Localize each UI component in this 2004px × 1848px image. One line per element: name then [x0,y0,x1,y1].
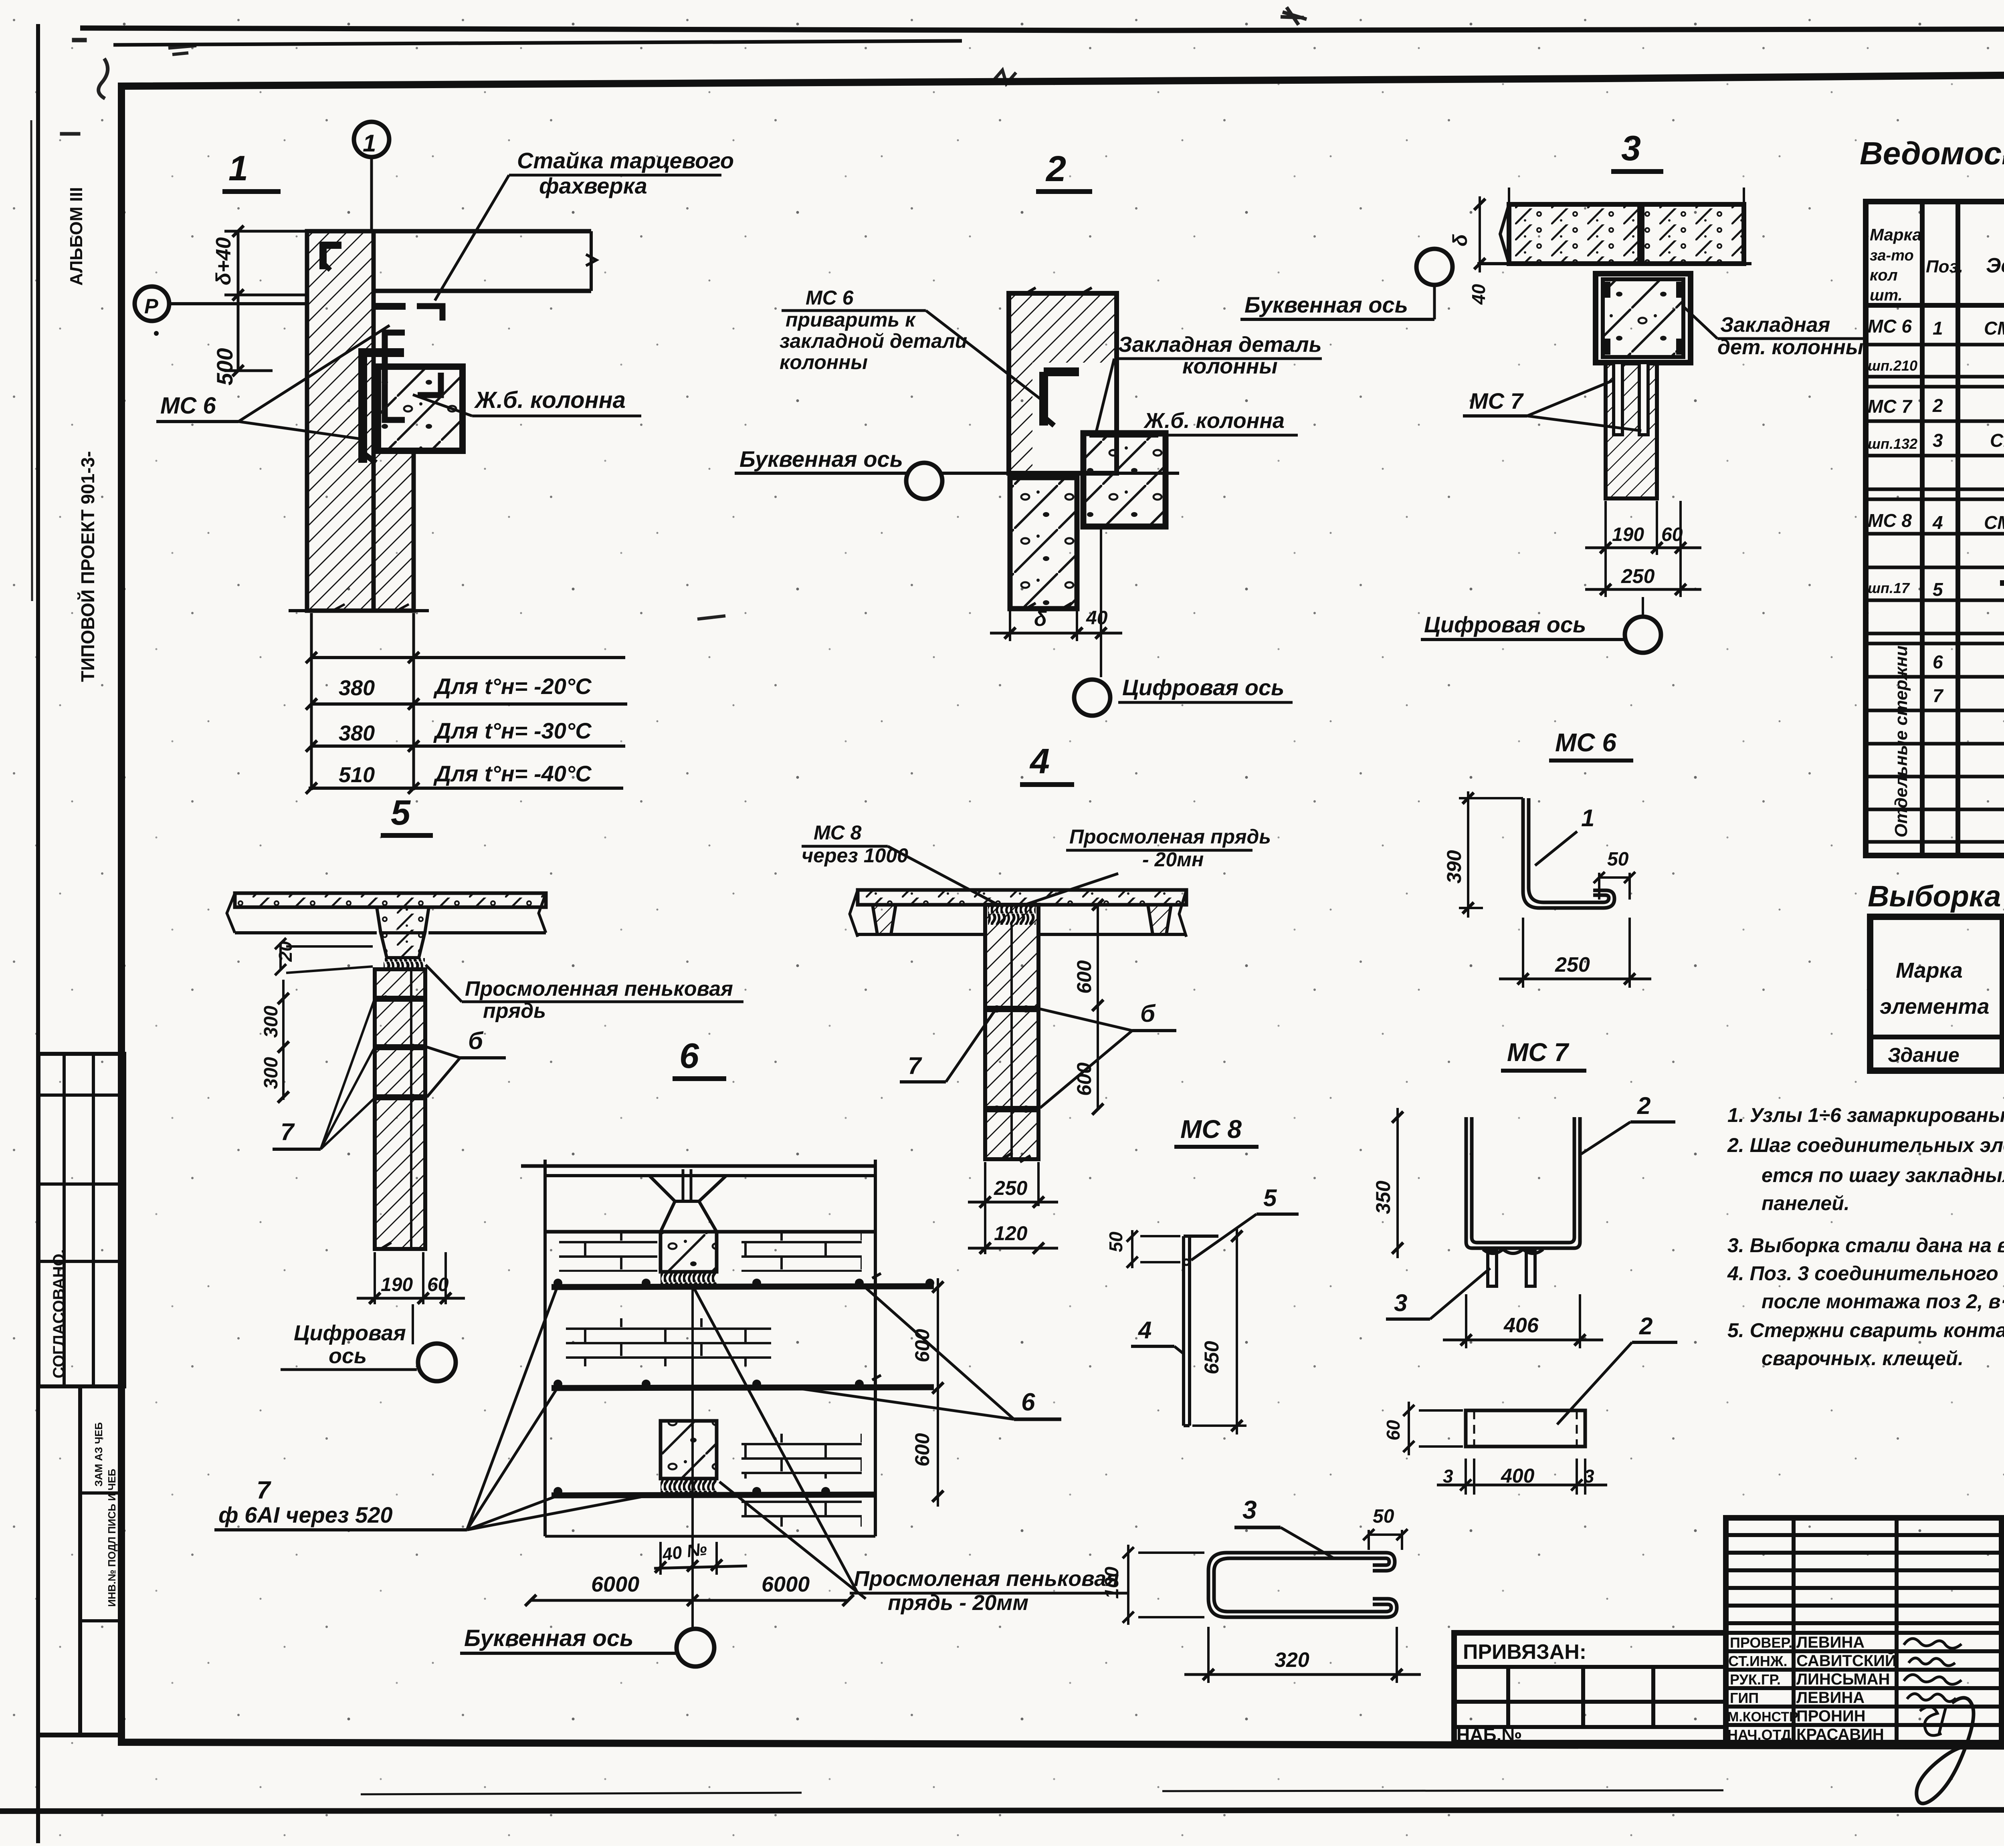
outer verticals [543,1160,547,1536]
svg-text:50: 50 [1373,1506,1394,1527]
svg-text:5: 5 [1933,579,1943,600]
upper column [661,1232,717,1272]
MC6 lower bracket [363,353,404,463]
svg-text:МС 8: МС 8 [1868,510,1912,531]
svg-text:колонны: колонны [780,351,868,373]
6000 dims [531,1599,848,1602]
dims left [282,980,285,1100]
svg-text:панелей.: панелей. [1762,1192,1850,1215]
svg-text:510: 510 [339,763,375,787]
svg-text:1: 1 [1933,318,1943,339]
dims below [1604,501,1607,597]
svg-text:ПРОНИН: ПРОНИН [1796,1707,1866,1725]
svg-text:7: 7 [1933,685,1944,706]
fachwerk channel symbols [373,303,406,310]
svg-text:Просмоленая прядь: Просмоленая прядь [1069,825,1271,848]
svg-text:НАБ.№: НАБ.№ [1457,1724,1522,1745]
svg-text:3: 3 [1933,430,1943,451]
P circle [135,286,169,321]
svg-text:2: 2 [1637,1092,1650,1119]
svg-text:7: 7 [908,1052,922,1079]
svg-text:МС 8: МС 8 [1180,1115,1242,1144]
svg-text:1. Узлы 1÷6 замаркированы на л: 1. Узлы 1÷6 замаркированы на листах АР-2… [1727,1104,2004,1126]
svg-text:500: 500 [212,348,237,385]
svg-text:7: 7 [257,1477,271,1504]
right dim 600/600 [1097,905,1099,1109]
upper wall column hatched [1009,293,1117,473]
svg-text:САВИТСКИЙ: САВИТСКИЙ [1796,1651,1897,1670]
svg-text:50: 50 [1607,849,1629,870]
slab band [1509,204,1744,264]
svg-text:Буквенная ось: Буквенная ось [464,1625,634,1651]
svg-text:4. Поз. 3 соединительного эле: 4. Поз. 3 соединительного элемента МС7 п… [1727,1262,2004,1285]
svg-text:600: 600 [1073,1062,1095,1096]
svg-text:650: 650 [1200,1341,1223,1374]
rebar line 1 [552,1286,934,1287]
column with embed [1596,274,1691,363]
svg-text:600: 600 [1073,960,1095,994]
svg-text:МС 7: МС 7 [1868,396,1913,417]
svg-text:390: 390 [1443,850,1465,884]
svg-text:кол: кол [1870,266,1898,284]
svg-text:МС 7: МС 7 [1469,388,1524,414]
svg-text:6000: 6000 [762,1572,810,1596]
svg-text:120: 120 [994,1222,1028,1245]
svg-text:4: 4 [1932,512,1943,533]
svg-text:Здание: Здание [1888,1044,1960,1066]
svg-text:после монтажа поз 2, в·зависим: после монтажа поз 2, в·зависимости от пр… [1762,1290,2004,1313]
svg-text:5: 5 [391,793,411,832]
svg-text:190: 190 [1612,524,1644,545]
MC6 upper bracket [323,245,341,269]
svg-text:Поз.: Поз. [1926,257,1963,276]
svg-text:ф 6АІ через 520: ф 6АІ через 520 [218,1502,393,1527]
svg-text:Буквенная ось: Буквенная ось [739,446,903,472]
svg-text:МС 6: МС 6 [1555,728,1616,757]
svg-text:ПРИВЯЗАН:: ПРИВЯЗАН: [1463,1640,1586,1664]
svg-text:МС 6: МС 6 [1868,316,1912,337]
wall [375,969,425,1249]
svg-text:Закладная деталь: Закладная деталь [1118,333,1322,357]
svg-text:Марка: Марка [1870,225,1922,244]
svg-text:7: 7 [281,1118,295,1145]
svg-text:60: 60 [1383,1420,1404,1440]
upper brick band [559,1233,657,1272]
svg-text:40: 40 [1086,607,1108,629]
bottom dim table [289,609,429,612]
svg-text:шп.17: шп.17 [1868,580,1910,596]
svg-text:Для t°н= -40°С: Для t°н= -40°С [433,761,592,786]
svg-text:элемента: элемента [1880,995,1989,1019]
svg-text:Отдельные стержни: Отдельные стержни [1891,646,1911,837]
svg-text:ется по шагу закладных деталей: ется по шагу закладных деталей колонны д… [1762,1164,2004,1186]
svg-text:СТ.ИНЖ.: СТ.ИНЖ. [1728,1653,1787,1669]
svg-text:6: 6 [679,1036,699,1075]
svg-text:320: 320 [1275,1648,1309,1672]
lower column concrete [1010,478,1077,609]
rebar line 2 [552,1387,934,1388]
svg-text:Эскиз или сечение: Эскиз или сечение [1986,254,2004,277]
slab [858,890,1186,905]
svg-text:50: 50 [1105,1231,1126,1252]
axis [735,472,1179,475]
svg-text:2. Шаг соединительных элементо: 2. Шаг соединительных элементов мс 6, мс… [1727,1134,2004,1156]
concrete column [378,367,463,451]
svg-text:380: 380 [339,676,375,700]
svg-text:СОГЛАСОВАНО.: СОГЛАСОВАНО. [50,1249,68,1378]
slab [235,893,546,907]
dim left [1479,196,1481,272]
svg-text:СМ.: СМ. [1984,318,2004,339]
svg-text:2: 2 [1932,395,1943,416]
svg-text:1: 1 [363,130,376,157]
svg-text:закладной детали: закладной детали [780,330,967,352]
svg-text:3: 3 [1242,1495,1257,1524]
svg-text:190: 190 [381,1274,413,1295]
svg-text:Буквенная ось: Буквенная ось [1244,292,1408,317]
top slab lines [521,1164,875,1168]
svg-text:МС 6: МС 6 [160,393,216,419]
svg-text:406: 406 [1503,1314,1539,1337]
lower column [661,1421,717,1479]
svg-text:ПРОВЕР.: ПРОВЕР. [1730,1634,1792,1651]
svg-text:6: 6 [1021,1388,1035,1416]
svg-text:шп.210: шп.210 [1868,357,1917,374]
svg-text:Закладная: Закладная [1720,313,1830,337]
svg-text:250: 250 [994,1177,1028,1199]
svg-text:250: 250 [1621,565,1655,587]
svg-text:МС 8: МС 8 [814,821,862,844]
svg-text:шт.: шт. [1870,286,1903,304]
svg-text:ЛЕВИНА: ЛЕВИНА [1796,1634,1865,1651]
svg-text:ГИП: ГИП [1730,1690,1759,1706]
svg-text:600: 600 [911,1433,933,1467]
bottom line [545,1535,875,1538]
svg-text:380: 380 [339,721,375,745]
lower column [1606,363,1657,498]
bottom dims [984,1162,986,1254]
svg-text:300: 300 [261,1057,282,1089]
svg-text:Стайка тарцевого: Стайка тарцевого [517,148,734,173]
svg-text:Просмоленная пеньковая: Просмоленная пеньковая [465,977,733,1001]
svg-text:δ: δ [1449,234,1471,246]
svg-text:М.КОНСТР: М.КОНСТР [1727,1709,1798,1725]
svg-text:250: 250 [1555,953,1590,976]
svg-text:НАЧ.ОТД: НАЧ.ОТД [1727,1727,1791,1743]
svg-text:2: 2 [1045,149,1066,189]
svg-text:300: 300 [261,1006,282,1038]
svg-text:б: б [1140,1000,1156,1027]
svg-text:δ: δ [1034,607,1047,631]
svg-text:5. Стержни сварить контактно-т: 5. Стержни сварить контактно-точечной св… [1727,1319,2004,1342]
svg-text:δ+40: δ+40 [212,237,235,285]
svg-text:СМ.: СМ. [1984,512,2004,533]
rebar line 3 [552,1495,875,1495]
svg-text:сварочных. клещей.: сварочных. клещей. [1762,1347,1964,1370]
svg-text:Цифровая: Цифровая [294,1321,406,1345]
svg-text:Марка: Марка [1896,958,1963,983]
svg-text:3. Выборка стали дана на всё: 3. Выборка стали дана на всё здание. [1727,1234,2004,1257]
svg-text:МС 6: МС 6 [806,286,854,309]
svg-text:ИНВ.№ ПОДЛ ПИСЬ И ЧЕБ: ИНВ.№ ПОДЛ ПИСЬ И ЧЕБ [106,1469,118,1607]
small table ПРИВЯЗАН [1454,1633,1726,1743]
bottom small dims 40/40 [654,1566,747,1568]
right block [2002,1518,2004,1743]
svg-text:6: 6 [1933,652,1943,672]
svg-text:Для t°н= -30°С: Для t°н= -30°С [433,718,592,743]
svg-text:Р: Р [144,295,158,318]
svg-text:40: 40 [1468,284,1489,305]
svg-text:3: 3 [1621,128,1641,168]
signatures [1904,1638,1979,1804]
scan artifacts [31,7,2004,1394]
svg-text:Выборка стали на один элемент,: Выборка стали на один элемент, кГ [1868,880,2004,913]
svg-text:Цифровая ось: Цифровая ось [1122,675,1284,700]
svg-text:за-то: за-то [1870,247,1914,264]
bottom dim [1009,611,1011,641]
svg-text:КРАСАВИН: КРАСАВИН [1796,1726,1884,1743]
svg-text:Ж.б. колонна: Ж.б. колонна [1143,409,1285,433]
svg-text:РУК.ГР.: РУК.ГР. [1730,1671,1781,1688]
svg-text:4: 4 [1029,741,1050,781]
svg-text:ось: ось [329,1344,367,1368]
central column [985,905,1038,1159]
svg-text:ЛИНСЬМАН: ЛИНСЬМАН [1796,1670,1890,1688]
slab beam [307,229,591,234]
center axis [691,1286,694,1629]
svg-text:шп.132: шп.132 [1868,436,1917,452]
svg-text:3: 3 [1443,1466,1453,1487]
funnel joint [649,1176,726,1201]
svg-text:Цифровая ось: Цифровая ось [1424,612,1586,637]
svg-text:б: б [468,1027,484,1054]
svg-text:60: 60 [427,1274,449,1295]
svg-text:350: 350 [1372,1180,1394,1214]
svg-text:фахверка: фахверка [539,173,647,198]
wall hatched [307,231,374,611]
svg-text:4: 4 [1138,1317,1151,1344]
svg-text:3: 3 [1394,1289,1407,1316]
svg-text:СМ.: СМ. [1990,430,2004,451]
svg-text:2: 2 [1639,1313,1652,1340]
middle bricks [566,1318,771,1366]
svg-text:5: 5 [1263,1184,1277,1211]
svg-text:МС 7: МС 7 [1507,1038,1570,1067]
svg-text:60: 60 [1661,524,1683,545]
svg-text:Для t°н= -20°С: Для t°н= -20°С [433,674,592,699]
svg-text:6000: 6000 [591,1572,639,1596]
svg-text:Ведомость стержней на один эле: Ведомость стержней на один элемент [1860,135,2004,171]
right column square [1083,433,1166,527]
svg-text:ЗАМ АЗ ЧЕБ: ЗАМ АЗ ЧЕБ [93,1422,105,1487]
svg-text:1: 1 [228,148,248,188]
svg-text:1: 1 [1581,805,1594,831]
svg-text:ТИПОВОЙ ПРОЕКТ 901-3-: ТИПОВОЙ ПРОЕКТ 901-3- [77,451,98,682]
bottom dims [374,1252,376,1304]
break marks [872,1273,881,1380]
svg-text:АЛЬБОМ III: АЛЬБОМ III [67,187,86,286]
right dim 600/600 [937,1278,939,1507]
svg-text:ЛЕВИНА: ЛЕВИНА [1796,1689,1865,1707]
left dim [237,231,240,371]
svg-text:Просмоленая пеньковая: Просмоленая пеньковая [854,1567,1119,1591]
svg-text:Ж.б. колонна: Ж.б. колонна [474,387,626,413]
signatures table [1726,1518,2002,1743]
